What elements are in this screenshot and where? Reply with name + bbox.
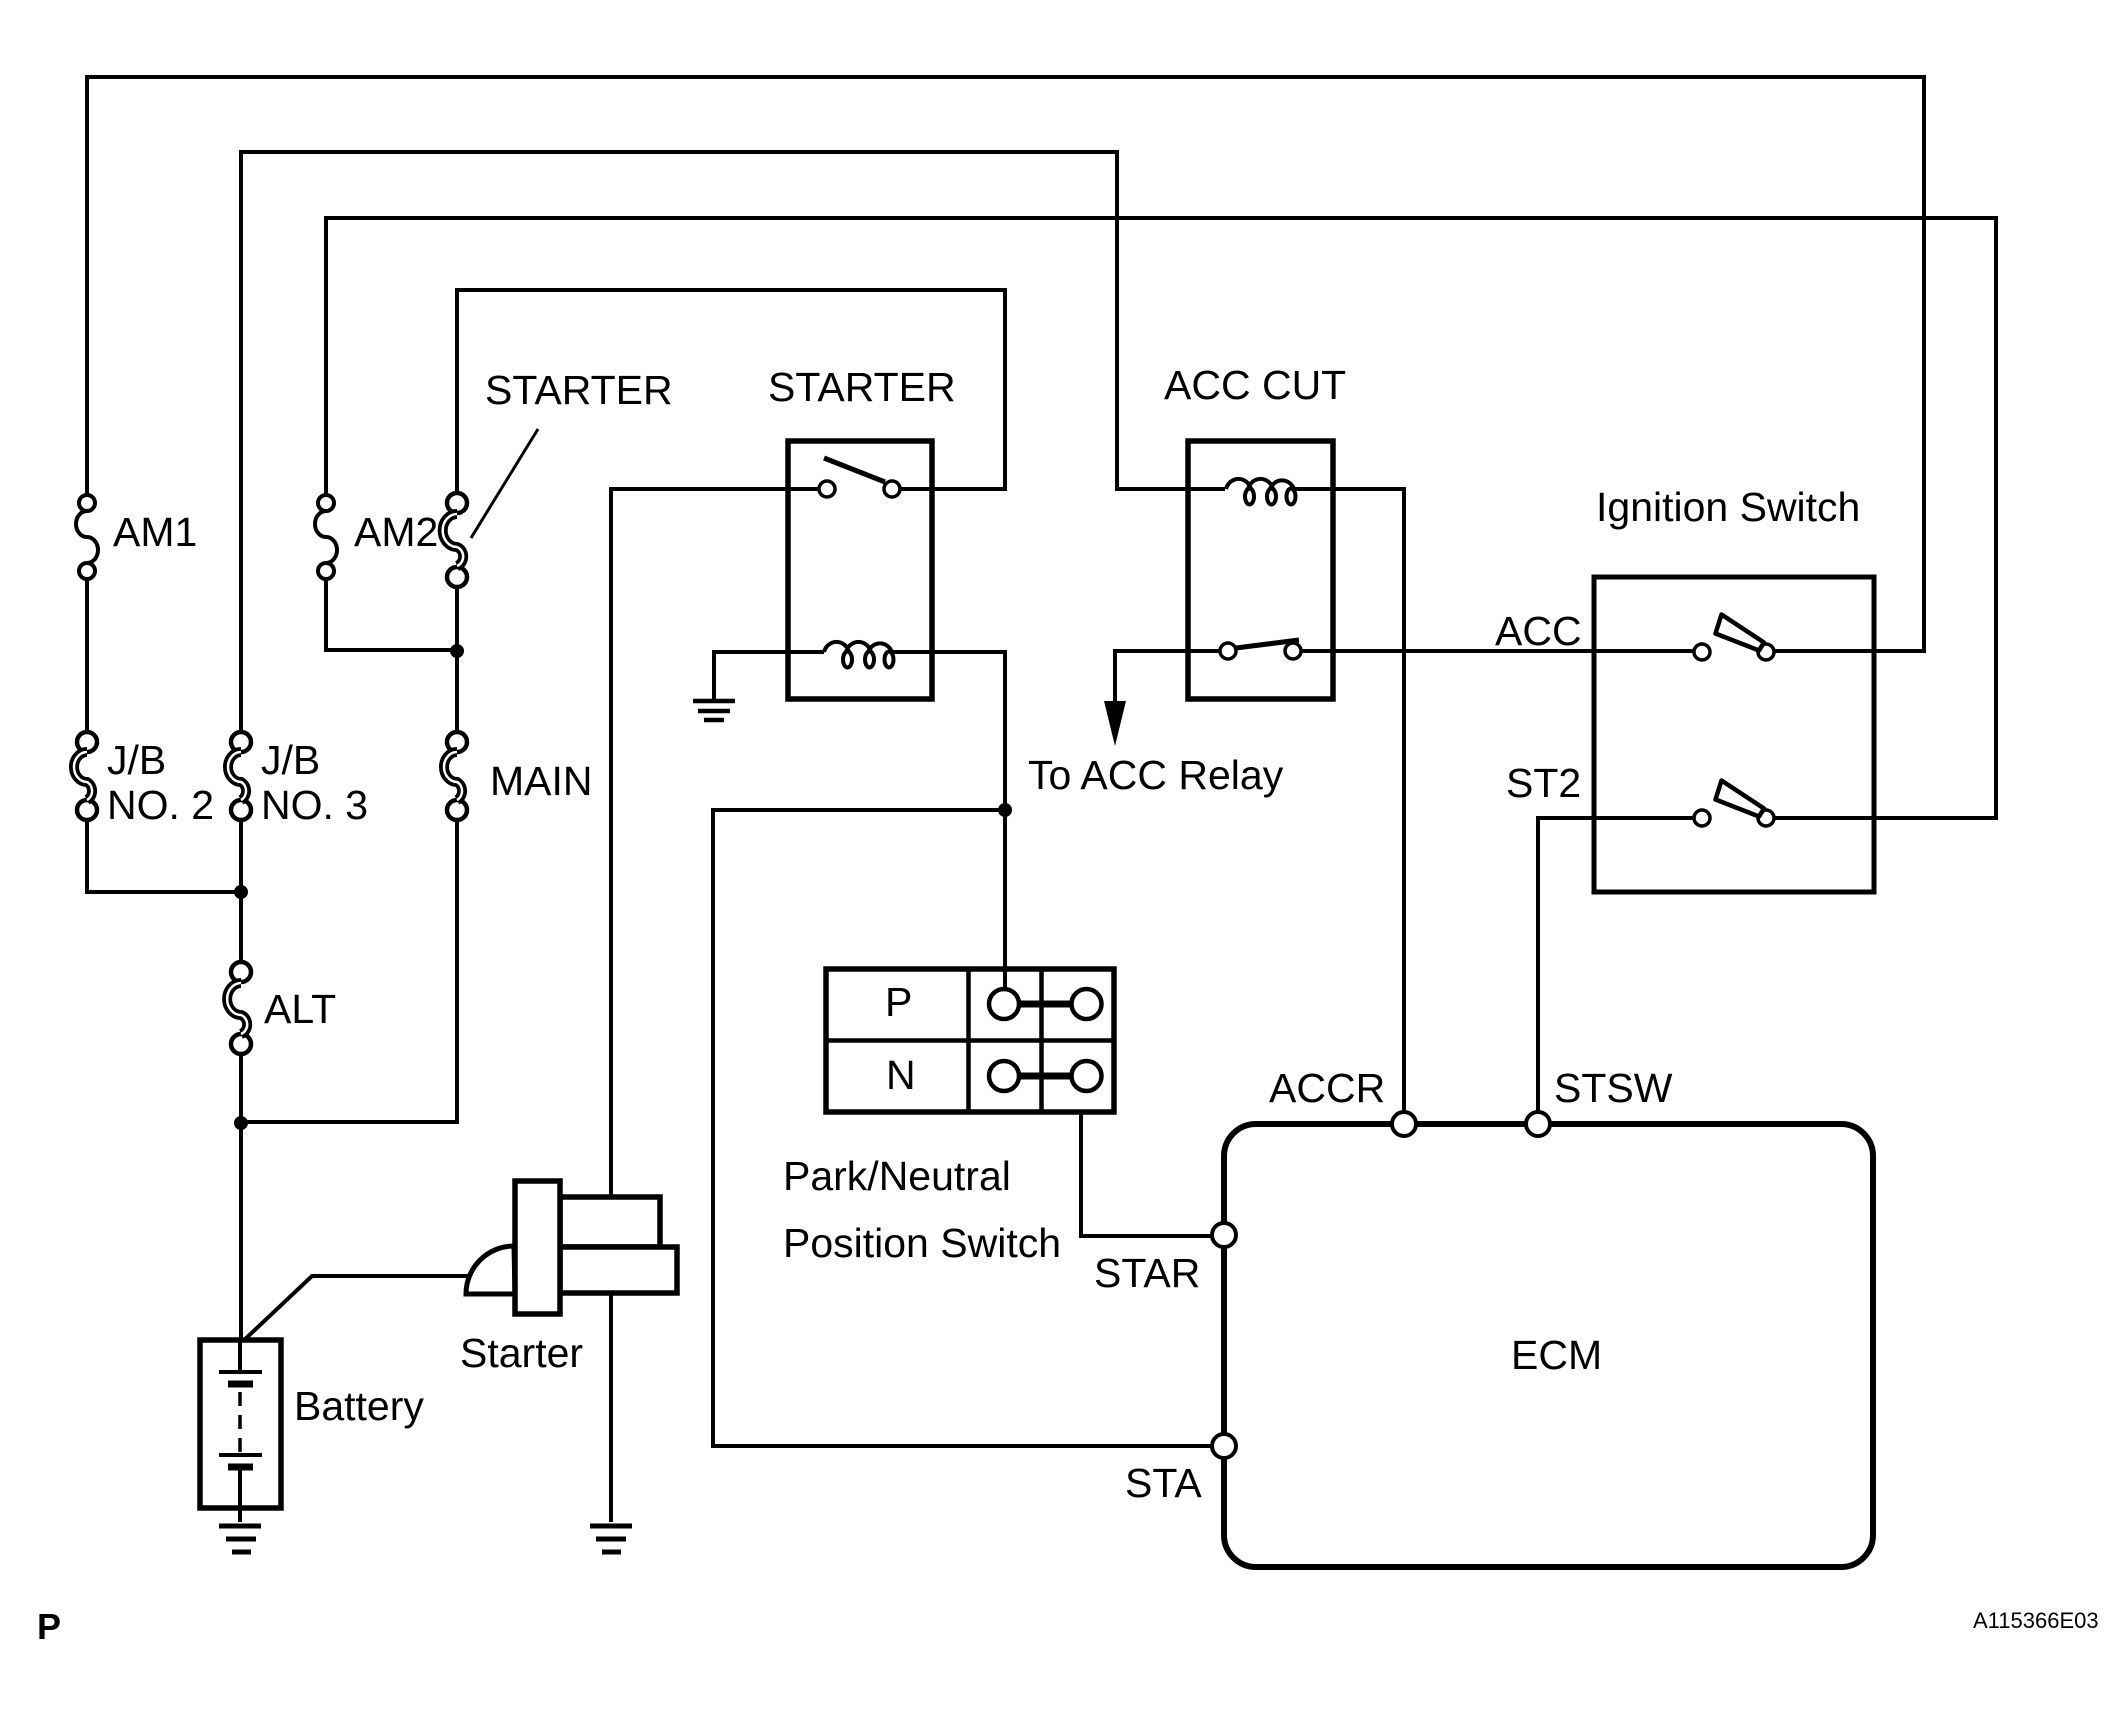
pointer line for STARTER fuse label bbox=[471, 429, 538, 538]
wire J/B NO.2 bottom to junction A bbox=[87, 820, 241, 892]
svg-text:A115366E03: A115366E03 bbox=[1973, 1608, 2099, 1633]
svg-text:STARTER: STARTER bbox=[485, 367, 673, 413]
wire node to ECM STA pin bbox=[713, 810, 1213, 1446]
svg-text:NO. 2: NO. 2 bbox=[107, 782, 214, 828]
relay ACC CUT switch contacts bbox=[1220, 643, 1236, 659]
fuse J/B NO.3 bbox=[228, 732, 251, 820]
ignition switch ACC lever bbox=[1716, 615, 1765, 651]
svg-text:MAIN: MAIN bbox=[490, 758, 593, 804]
ignition switch box bbox=[1594, 577, 1874, 892]
ignition switch ST2 contacts bbox=[1694, 810, 1710, 826]
svg-text:ECM: ECM bbox=[1511, 1332, 1602, 1378]
svg-text:ACCR: ACCR bbox=[1269, 1065, 1385, 1111]
svg-text:Position Switch: Position Switch bbox=[783, 1220, 1061, 1266]
svg-text:J/B: J/B bbox=[107, 737, 166, 783]
wire bus2 from J/B NO.3 top to ACC CUT coil left bbox=[241, 152, 1225, 732]
wire ALT bottom to battery bbox=[239, 1054, 243, 1340]
arrow To ACC Relay bbox=[1104, 701, 1126, 746]
park neutral switch P row contacts bbox=[1019, 1001, 1072, 1008]
svg-text:P: P bbox=[885, 979, 912, 1025]
park neutral switch N row contacts bbox=[1019, 1073, 1072, 1080]
wire relay coil left to ground bbox=[714, 652, 824, 699]
relay STARTER coil bbox=[824, 642, 894, 668]
ground under STARTER relay bbox=[693, 701, 735, 720]
svg-text:ALT: ALT bbox=[264, 986, 336, 1032]
svg-text:To ACC Relay: To ACC Relay bbox=[1028, 752, 1284, 798]
junction A bbox=[234, 885, 248, 899]
relay STARTER box bbox=[788, 441, 932, 699]
fuse AM1 bbox=[76, 495, 98, 579]
svg-text:STSW: STSW bbox=[1554, 1065, 1673, 1111]
wire ACC CUT switch right to ignition ACC left contact bbox=[1301, 649, 1694, 653]
fuse STARTER bbox=[443, 493, 467, 587]
wire J/B NO.3 bottom to ALT top bbox=[239, 820, 243, 962]
svg-text:ACC CUT: ACC CUT bbox=[1164, 362, 1346, 408]
svg-text:ST2: ST2 bbox=[1506, 760, 1581, 806]
svg-text:STA: STA bbox=[1125, 1460, 1202, 1506]
junction C bbox=[234, 1116, 248, 1130]
svg-text:STARTER: STARTER bbox=[768, 364, 956, 410]
svg-text:Starter: Starter bbox=[460, 1330, 583, 1376]
pin STAR bbox=[1212, 1223, 1236, 1247]
relay ACC CUT switch blade bbox=[1236, 640, 1299, 648]
svg-text:J/B: J/B bbox=[261, 737, 320, 783]
junction D bbox=[998, 803, 1012, 817]
wire AM1 to J/B NO.2 bbox=[85, 579, 89, 732]
ECM box bbox=[1224, 1124, 1873, 1567]
fuse J/B NO.2 bbox=[74, 732, 97, 820]
wire bus4 starter fuse top to relay switch right contact bbox=[457, 290, 1005, 493]
relay ACC CUT coil bbox=[1226, 479, 1296, 505]
ignition switch ACC contacts bbox=[1694, 644, 1710, 660]
svg-text:Park/Neutral: Park/Neutral bbox=[783, 1153, 1011, 1199]
fuse MAIN bbox=[444, 732, 467, 820]
park neutral position switch box bbox=[826, 969, 1114, 1112]
wire ACC CUT coil right to ECM ACCR pin bbox=[1293, 489, 1404, 1113]
svg-text:ACC: ACC bbox=[1495, 608, 1582, 654]
svg-text:N: N bbox=[886, 1052, 916, 1098]
ground under starter motor bbox=[590, 1526, 632, 1552]
ignition switch ST2 lever bbox=[1716, 781, 1765, 817]
wire MAIN fuse bottom to junction C bbox=[241, 820, 457, 1122]
wire bus3 from AM2 top to ignition ST2 right contact bbox=[326, 218, 1996, 818]
ground under battery bbox=[219, 1526, 261, 1552]
svg-text:AM2: AM2 bbox=[354, 509, 438, 555]
pin ACCR bbox=[1392, 1112, 1416, 1136]
wire top bus from AM1 to ignition ACC right contact bbox=[87, 77, 1924, 651]
svg-text:P: P bbox=[37, 1606, 61, 1647]
pin STA bbox=[1212, 1434, 1236, 1458]
pin STSW bbox=[1526, 1112, 1550, 1136]
wire AM2 bottom to junction B bbox=[326, 579, 453, 650]
svg-text:NO. 3: NO. 3 bbox=[261, 782, 368, 828]
fuse AM2 bbox=[315, 495, 337, 579]
starter motor bbox=[466, 1181, 677, 1314]
junction B bbox=[450, 644, 464, 658]
relay STARTER switch blade bbox=[824, 458, 885, 482]
battery bbox=[200, 1340, 281, 1522]
wire STARTER fuse bottom to MAIN fuse top bbox=[455, 587, 459, 732]
svg-text:Battery: Battery bbox=[294, 1383, 424, 1429]
wire ACC CUT switch left to ACC relay arrow bbox=[1115, 651, 1220, 704]
wire relay switch left contact to starter motor and ground bbox=[611, 489, 819, 1522]
svg-text:STAR: STAR bbox=[1094, 1250, 1200, 1296]
wire battery positive to starter motor bbox=[241, 1276, 468, 1343]
wire ignition ST2 left contact to ECM STSW pin bbox=[1538, 818, 1694, 1113]
relay STARTER switch contacts bbox=[819, 481, 835, 497]
fuse ALT bbox=[227, 962, 251, 1054]
wire relay coil right down to park neutral switch bbox=[891, 652, 1005, 987]
svg-text:AM1: AM1 bbox=[113, 509, 197, 555]
relay ACC CUT box bbox=[1188, 441, 1333, 699]
svg-text:Ignition Switch: Ignition Switch bbox=[1596, 484, 1860, 530]
wire park neutral switch to ECM STAR pin bbox=[1081, 1112, 1213, 1236]
